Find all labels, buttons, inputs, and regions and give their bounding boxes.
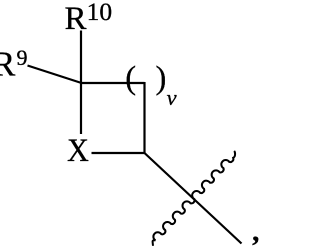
ring bottom edge xyxy=(92,152,145,154)
svg-text:v: v xyxy=(167,85,177,110)
svg-text:10: 10 xyxy=(87,0,113,26)
svg-text:(: ( xyxy=(125,61,136,97)
bond R9 to ring xyxy=(28,66,82,84)
svg-text:R: R xyxy=(65,1,87,37)
wavy attachment-point line xyxy=(153,151,235,246)
svg-text:,: , xyxy=(252,215,259,247)
bond from ring to attachment carbon xyxy=(145,153,242,244)
substituent label R9 xyxy=(0,45,28,84)
svg-text:R: R xyxy=(0,45,16,84)
bond R10 to ring + ring left edge xyxy=(80,31,82,135)
svg-text:): ) xyxy=(156,61,167,97)
svg-text:9: 9 xyxy=(17,45,28,70)
substituent label R10 xyxy=(65,0,113,37)
ring right edge xyxy=(143,82,145,153)
ring top edge xyxy=(80,82,145,84)
svg-text:X: X xyxy=(67,132,89,168)
